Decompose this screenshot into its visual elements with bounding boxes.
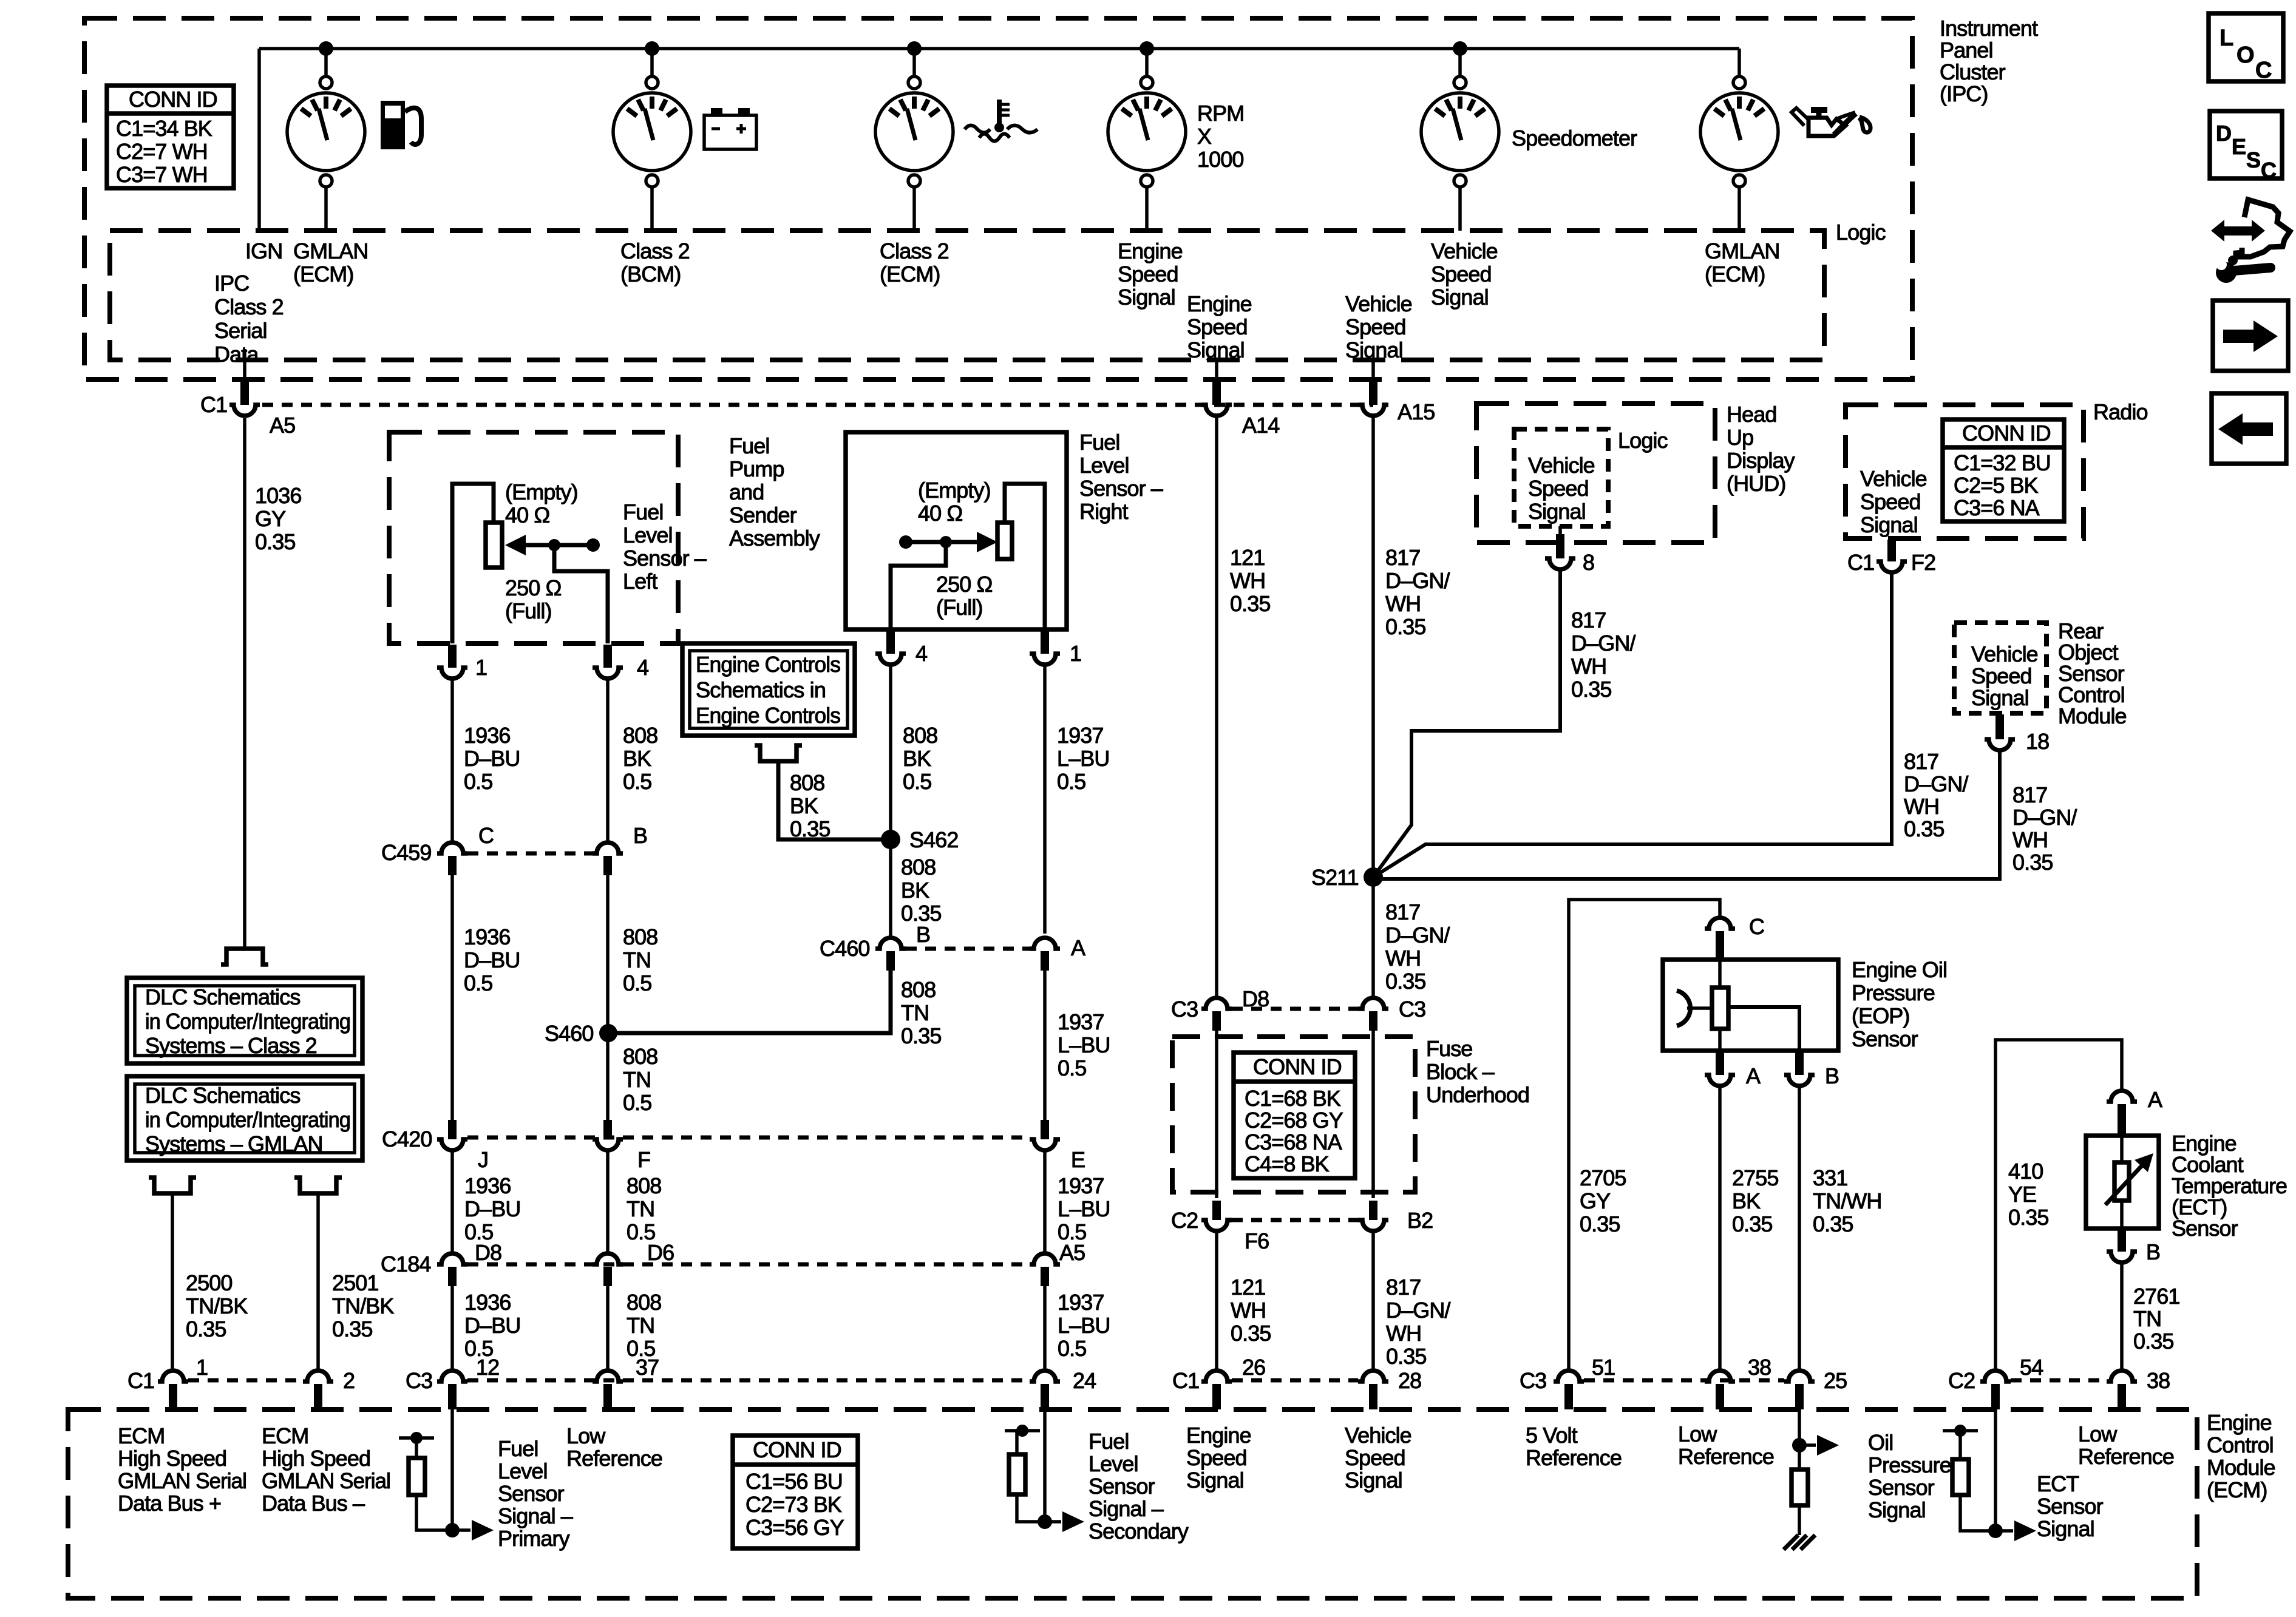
wire S460 to C460 branch bbox=[608, 970, 891, 1033]
wire 817 from rear module to S211 bbox=[1373, 750, 2000, 879]
connector ECM pin 54: pin bbox=[1991, 1384, 2000, 1409]
connector ECM pin 1: pin bbox=[169, 1384, 177, 1409]
arrow: Fuel Level Sensor Signal Primary bbox=[452, 1528, 470, 1532]
connector ECM pin 38 C3: pin bbox=[1716, 1384, 1724, 1409]
connector EOP pin A bbox=[1716, 1052, 1724, 1075]
svg-text:S: S bbox=[2246, 147, 2260, 172]
junction pin54 signal bbox=[1988, 1524, 2003, 1538]
svg-text:Engine ControlsSchematics inEn: Engine ControlsSchematics inEngine Contr… bbox=[696, 652, 840, 728]
ECM pin 25 internal: wire/junction/arrow/resistor/ground bbox=[1792, 1409, 1839, 1535]
svg-text:A5: A5 bbox=[270, 413, 295, 438]
fuel level sensor left: wiper to pin 4 bbox=[554, 545, 608, 643]
connector ECM pin 26: dome bbox=[1201, 1371, 1232, 1381]
ECT internals: wire + thermistor bbox=[2120, 1136, 2124, 1162]
wire: tachometer RPM gauge to logic box bbox=[1145, 187, 1149, 231]
box: Engine Controls Schematics bbox=[682, 643, 855, 736]
svg-text:S460: S460 bbox=[545, 1021, 593, 1046]
svg-text:A14: A14 bbox=[1242, 413, 1279, 438]
svg-text:E: E bbox=[2232, 134, 2246, 159]
svg-text:8: 8 bbox=[1583, 550, 1594, 575]
ECT internals: thermistor arrow bbox=[2105, 1153, 2153, 1205]
wire 1936 D-BU 0.5 (seg 2) bbox=[450, 875, 454, 1120]
svg-text:Logic: Logic bbox=[1836, 220, 1886, 245]
svg-text:B: B bbox=[633, 823, 647, 848]
svg-text:CONN ID: CONN ID bbox=[129, 87, 217, 112]
connector C420 pin E: cup bbox=[1030, 1139, 1060, 1150]
connector ECM pin 54: dome bbox=[1980, 1371, 2011, 1381]
connector ECM pin 12: pin bbox=[448, 1384, 457, 1409]
wire: IGN vertical from bus into logic box bbox=[257, 49, 261, 231]
connector ECM pin 51: pin bbox=[1564, 1384, 1573, 1409]
connector ECM pin 37: dome bbox=[593, 1371, 623, 1381]
wire 817 D-GN/WH (to ECM 28) bbox=[1371, 1231, 1375, 1369]
box: DLC Schematics GMLAN bbox=[127, 1076, 362, 1161]
box: Fuel Pump and Sender Assembly (dashed) bbox=[389, 432, 678, 643]
connector C459 pin C: pin bbox=[448, 856, 457, 875]
wire ECM pin 54 internal bbox=[1994, 1409, 1997, 1531]
wire: ignition/GMLAN bus across top bbox=[259, 47, 1739, 50]
EOP internals: resistor to pin A bbox=[1718, 1029, 1722, 1051]
svg-text:L: L bbox=[2220, 25, 2233, 51]
svg-text:EngineSpeedSignal: EngineSpeedSignal bbox=[1118, 239, 1183, 310]
dotted ECM C3 row (51-38-25) bbox=[1584, 1378, 1784, 1383]
svg-text:B: B bbox=[1825, 1063, 1839, 1088]
svg-text:C184: C184 bbox=[381, 1252, 430, 1276]
icon: harness routing (arrows + wrench) bbox=[2211, 200, 2290, 283]
svg-text:C: C bbox=[2255, 58, 2272, 83]
svg-text:C: C bbox=[1749, 914, 1764, 939]
ECM CONN ID table bbox=[733, 1436, 858, 1548]
svg-text:B: B bbox=[2146, 1239, 2160, 1264]
gauge oil pressure: meter symbol bbox=[1700, 76, 1778, 187]
connector C459 pin B: dome bbox=[593, 842, 623, 853]
svg-text:C3: C3 bbox=[1171, 997, 1198, 1022]
fuse block CONN ID table bbox=[1234, 1053, 1355, 1178]
icon: fuel pump (gas station) bbox=[381, 101, 421, 149]
svg-text:1: 1 bbox=[196, 1355, 208, 1380]
icon: battery bbox=[704, 108, 756, 149]
wire ECM pin 24 internal bbox=[1043, 1409, 1047, 1522]
connector radio C1/F2 bbox=[1887, 540, 1896, 561]
svg-text:VehicleSpeedSignal: VehicleSpeedSignal bbox=[1345, 291, 1412, 362]
ground symbol (pin 25) bbox=[1784, 1535, 1815, 1550]
svg-text:25: 25 bbox=[1824, 1368, 1847, 1393]
wire: serial data stub bbox=[243, 349, 246, 360]
gauge fuel level: meter symbol bbox=[287, 76, 365, 187]
svg-text:A15: A15 bbox=[1398, 399, 1435, 424]
dotted line D8 row bbox=[1232, 1007, 1358, 1011]
connector C1/A15: pin bbox=[1369, 381, 1377, 405]
connector ECM pin 12: dome bbox=[437, 1371, 467, 1381]
radio CONN ID table bbox=[1943, 419, 2064, 521]
splice S460 bbox=[599, 1024, 617, 1042]
box: DLC Schematics Class 2 bbox=[127, 978, 362, 1063]
EOP internals: resistor bbox=[1712, 988, 1728, 1029]
connector C420 pin J: cup bbox=[437, 1139, 467, 1150]
connector C184 pin D6: pin bbox=[603, 1267, 612, 1286]
svg-text:C: C bbox=[478, 823, 494, 848]
junction on bus x=1506 bbox=[907, 41, 922, 56]
connector ECM pin 38 C3: dome bbox=[1705, 1371, 1735, 1381]
svg-text:F6: F6 bbox=[1245, 1229, 1269, 1253]
connector ECT pin A bbox=[2107, 1091, 2137, 1102]
connector fuse C3 right: pin bbox=[1369, 1011, 1377, 1031]
svg-text:121WH0.35: 121WH0.35 bbox=[1231, 1275, 1271, 1346]
icon box: arrow right bbox=[2213, 300, 2288, 371]
svg-text:C1: C1 bbox=[200, 392, 227, 417]
connector C420 pin F: cup bbox=[593, 1139, 623, 1150]
svg-text:2: 2 bbox=[343, 1368, 355, 1393]
ECM pulldown for pin 54 bbox=[1943, 1425, 1995, 1531]
wire 808 BK 0.5 (seg 1) bbox=[606, 679, 610, 842]
svg-text:C460: C460 bbox=[820, 936, 869, 961]
svg-text:1: 1 bbox=[1070, 641, 1081, 666]
box: Engine Oil Pressure sensor bbox=[1663, 960, 1838, 1051]
junction on bus x=2405 bbox=[1453, 41, 1467, 56]
fuel level sensor right: resistor element bbox=[997, 523, 1012, 559]
IPC internal Logic dashed box bbox=[110, 231, 1824, 360]
connector fuse C2/F6: cup bbox=[1201, 1220, 1232, 1231]
dotted line C459 bbox=[467, 852, 593, 856]
svg-text:CONN ID: CONN ID bbox=[1962, 421, 2051, 446]
wire 2755 BK 0.35 bbox=[1718, 1086, 1722, 1369]
svg-text:D8: D8 bbox=[475, 1240, 501, 1265]
wire ECM pin 12 internal bbox=[450, 1409, 454, 1530]
svg-text:A: A bbox=[1071, 935, 1085, 960]
svg-text:Class 2(BCM): Class 2(BCM) bbox=[620, 239, 690, 286]
connector ECM pin 28: dome bbox=[1358, 1371, 1388, 1381]
wire 2501 TN/BK 0.35 bbox=[316, 1193, 320, 1369]
wire 1936 D-BU 0.5 (seg 3) bbox=[450, 1150, 454, 1255]
box: Engine Control Module (dashed) bbox=[68, 1409, 2197, 1598]
connector fuse C2/F6: pin bbox=[1212, 1201, 1221, 1220]
gauge tachometer RPM: meter symbol bbox=[1108, 76, 1186, 187]
connector C1/A5: cup bbox=[229, 405, 260, 416]
wire 817 D-GN/WH (A15 through S211 to C3) bbox=[1371, 416, 1375, 998]
IPC CONN ID table bbox=[107, 86, 234, 188]
arrow: Fuel Level Sensor Signal Secondary bbox=[1045, 1520, 1061, 1524]
connector ECT pin B bbox=[2118, 1230, 2126, 1252]
connector ECM pin 28: pin bbox=[1369, 1384, 1377, 1409]
svg-text:18: 18 bbox=[2026, 729, 2049, 754]
wire 121 WH 0.35 (to ECM 26) bbox=[1215, 1231, 1218, 1369]
fuel level sensor left: wiper arrow bbox=[505, 535, 600, 555]
svg-text:12: 12 bbox=[476, 1355, 499, 1380]
connector ECM pin 38 C2: dome bbox=[2107, 1371, 2137, 1381]
splice S462 bbox=[881, 830, 900, 849]
svg-text:VehicleSpeedSignal: VehicleSpeedSignal bbox=[1528, 453, 1595, 524]
wire: bus to speedometer gauge bbox=[1458, 49, 1462, 76]
wire 2705 GY 0.35 (5V ref to EOP C) bbox=[1569, 900, 1720, 1369]
svg-text:37: 37 bbox=[636, 1355, 659, 1380]
connector C184 pin D8: dome bbox=[437, 1253, 467, 1264]
wire 121 WH 0.35 (A14 to D8) bbox=[1215, 416, 1218, 998]
svg-text:VehicleSpeedSignal: VehicleSpeedSignal bbox=[1431, 239, 1498, 310]
svg-text:CONN ID: CONN ID bbox=[1253, 1054, 1342, 1079]
arrow: ECT Sensor Signal bbox=[1995, 1529, 2013, 1533]
wire 808 BK 0.35 from Engine Controls bbox=[778, 761, 881, 839]
svg-text:C459: C459 bbox=[381, 840, 431, 865]
connector C420 pin J: pin bbox=[448, 1120, 457, 1139]
dotted line C420 bbox=[467, 1136, 1030, 1140]
connector pin 4 (fuel pump) bbox=[603, 645, 612, 668]
icon: coolant temperature (thermometer over waves) bbox=[965, 100, 1038, 141]
Instrument Panel Cluster (IPC) outer dashed box bbox=[84, 18, 1912, 379]
connector C1/A5: pin bbox=[240, 381, 249, 405]
connector C460 pin B: pin bbox=[886, 951, 895, 971]
receptacle into DLC Class-2 box bbox=[221, 949, 268, 964]
svg-text:A: A bbox=[2148, 1087, 2162, 1112]
wire: fuel level gauge to logic box bbox=[324, 187, 328, 231]
junction on bus x=1889 bbox=[1140, 41, 1154, 56]
dotted connector line IPC C1 row bbox=[262, 403, 1373, 407]
wire 808 TN 0.5 (seg 4) bbox=[606, 1150, 610, 1255]
connector fuse D8: dome bbox=[1201, 998, 1232, 1009]
connector C459 pin C: dome bbox=[437, 842, 467, 853]
svg-text:C1: C1 bbox=[1847, 550, 1874, 575]
connector EOP pin B bbox=[1795, 1052, 1804, 1075]
gauge speedometer: meter symbol bbox=[1421, 76, 1499, 187]
connector ECM pin 2: dome bbox=[303, 1371, 333, 1381]
fuel level sensor left: resistor element bbox=[486, 523, 502, 568]
svg-text:VehicleSpeedSignal: VehicleSpeedSignal bbox=[1860, 466, 1927, 537]
svg-text:Class 2(ECM): Class 2(ECM) bbox=[880, 239, 949, 286]
connector C184 pin D6: dome bbox=[593, 1253, 623, 1264]
junction pin12 signal bbox=[445, 1523, 460, 1537]
wire: bus to voltage/battery gauge bbox=[650, 49, 654, 76]
receptacle from Engine Controls box bbox=[755, 745, 802, 761]
wire 1036 GY 0.35 bbox=[243, 418, 246, 949]
box: Rear Object VSS (small dashed) bbox=[1954, 623, 2046, 713]
dotted ECM C1 row (1-2) bbox=[188, 1378, 303, 1383]
EOP internals: wiper line bbox=[1687, 1006, 1712, 1010]
svg-text:D8: D8 bbox=[1242, 986, 1269, 1011]
box: Fuse Block - Underhood (dashed) bbox=[1172, 1037, 1415, 1192]
connector C184 pin A5: pin bbox=[1041, 1267, 1049, 1286]
svg-text:CONN ID: CONN ID bbox=[753, 1437, 841, 1462]
fuel level sensor right: rheostat wire bbox=[1005, 484, 1045, 629]
wire 331 TN/WH 0.35 bbox=[1798, 1086, 1801, 1369]
svg-text:F: F bbox=[637, 1147, 650, 1172]
wire: coolant temp gauge to logic box bbox=[912, 187, 916, 231]
svg-text:VehicleSpeedSignal: VehicleSpeedSignal bbox=[1345, 1423, 1411, 1493]
box: Engine Coolant Temperature sensor bbox=[2086, 1136, 2159, 1229]
svg-text:Radio: Radio bbox=[2093, 399, 2148, 424]
junction on bus x=537 bbox=[319, 41, 333, 56]
junction on bus x=1074 bbox=[645, 41, 659, 56]
svg-text:1: 1 bbox=[475, 655, 487, 680]
connector pin 1 (fuel pump) bbox=[448, 645, 457, 668]
wire 808 BK 0.5 (right, seg1) bbox=[889, 665, 892, 832]
connector ECM pin 1: dome bbox=[158, 1371, 188, 1381]
junction pin24 signal bbox=[1038, 1514, 1052, 1529]
fuel level sensor left: rheostat wire bbox=[452, 484, 494, 643]
box: Radio (dashed) bbox=[1846, 405, 2084, 538]
connector C1/A15: cup bbox=[1358, 405, 1388, 416]
receptacle from DLC GMLAN box (right) bbox=[294, 1178, 342, 1193]
wire 808 TN 0.35 below C460 bbox=[889, 971, 892, 1033]
connector rear pin 18 bbox=[1995, 714, 2004, 739]
wire 1937 L-BU 0.5 (seg2) bbox=[1043, 971, 1047, 1120]
svg-text:C1: C1 bbox=[1172, 1368, 1199, 1393]
wire: bus to fuel level gauge bbox=[324, 49, 328, 76]
svg-text:C1=34 BKC2=7 WHC3=7 WH: C1=34 BKC2=7 WHC3=7 WH bbox=[116, 116, 212, 187]
svg-text:VehicleSpeedSignal: VehicleSpeedSignal bbox=[1971, 642, 2038, 710]
EOP internals: wire C to resistor bbox=[1718, 960, 1722, 988]
svg-text:4: 4 bbox=[915, 641, 927, 666]
splice S211 bbox=[1364, 867, 1383, 887]
svg-text:E: E bbox=[1071, 1147, 1085, 1172]
svg-text:28: 28 bbox=[1398, 1368, 1421, 1393]
icon box: arrow left bbox=[2212, 393, 2286, 464]
wire 1937 L-BU 0.5 (seg3) bbox=[1043, 1150, 1047, 1255]
connector pin 1 (right sensor) bbox=[1041, 631, 1049, 654]
wire 1937 L-BU 0.5 (seg1) bbox=[1043, 665, 1047, 934]
connector ECM pin 25: pin bbox=[1795, 1384, 1804, 1409]
svg-text:IGN: IGN bbox=[245, 239, 282, 263]
wire: speedometer gauge to logic box bbox=[1458, 187, 1462, 231]
connector pin 4 (right sensor) bbox=[886, 631, 895, 654]
connector ECM pin 2: pin bbox=[314, 1384, 322, 1409]
wire 1936 D-BU 0.5 (seg 1) bbox=[450, 679, 454, 842]
wire 2761 TN 0.35 bbox=[2120, 1263, 2124, 1369]
svg-text:C420: C420 bbox=[382, 1127, 432, 1151]
svg-text:O: O bbox=[2237, 42, 2254, 68]
wire 817 from radio to S211 bbox=[1373, 572, 1892, 877]
svg-text:A5: A5 bbox=[1059, 1240, 1085, 1265]
connector ECM pin 24: dome bbox=[1030, 1371, 1060, 1381]
connector fuse B2: pin bbox=[1369, 1201, 1377, 1220]
icon box: DESC bbox=[2210, 111, 2282, 183]
ECM pullup for pin 24 bbox=[1005, 1425, 1044, 1522]
fuel level sensor right: wiper to pin 4 bbox=[891, 542, 946, 629]
svg-text:Logic: Logic bbox=[1618, 428, 1668, 453]
svg-text:S462: S462 bbox=[909, 827, 958, 852]
wire 808 TN 0.5 (seg 3) bbox=[606, 1033, 610, 1120]
connector C184 pin A5: dome bbox=[1030, 1253, 1060, 1264]
EOP internals: tap to pin B bbox=[1728, 1007, 1799, 1051]
svg-text:C: C bbox=[2261, 158, 2277, 183]
connector ECM pin 26: pin bbox=[1212, 1384, 1221, 1409]
svg-text:C3: C3 bbox=[1399, 997, 1425, 1022]
wire 817 through fuse block bbox=[1371, 1031, 1375, 1198]
wire: bus to coolant temp gauge bbox=[912, 49, 916, 76]
svg-text:Speedometer: Speedometer bbox=[1512, 126, 1637, 151]
wire 410 YE 0.35 (ECM 54 to ECT A) bbox=[1995, 1040, 2122, 1369]
connector C1/A5: wire through IPC box bbox=[243, 360, 246, 381]
wire 808 TN 0.5 (seg 5) bbox=[606, 1286, 610, 1369]
connector ECM pin 25: dome bbox=[1784, 1371, 1815, 1381]
wire: bus to tachometer RPM gauge bbox=[1145, 49, 1149, 76]
wire 808 BK 0.35 S462 to C460 bbox=[889, 839, 892, 938]
connector ECM pin 38 C2: pin bbox=[2118, 1384, 2126, 1409]
svg-text:C1=56 BUC2=73 BKC3=56 GY: C1=56 BUC2=73 BKC3=56 GY bbox=[746, 1469, 844, 1540]
svg-text:B2: B2 bbox=[1407, 1208, 1433, 1233]
svg-text:38: 38 bbox=[1748, 1355, 1771, 1380]
gauge coolant temp: meter symbol bbox=[875, 76, 953, 187]
svg-text:C1: C1 bbox=[127, 1368, 154, 1393]
dotted line F6/B2 row bbox=[1232, 1218, 1358, 1222]
connector fuse D8: pin bbox=[1212, 1011, 1221, 1031]
dotted ECM C1 row (26-28) bbox=[1232, 1378, 1358, 1383]
svg-text:C3: C3 bbox=[406, 1368, 432, 1393]
connector C460 pin B: dome bbox=[875, 938, 906, 949]
svg-text:121WH0.35: 121WH0.35 bbox=[1230, 545, 1270, 616]
connector ECM pin 37: pin bbox=[603, 1384, 612, 1409]
svg-text:C2: C2 bbox=[1948, 1368, 1975, 1393]
wire 1937 L-BU 0.5 (seg4) bbox=[1043, 1286, 1047, 1369]
wire 817 from HUD to S211 bbox=[1373, 569, 1560, 877]
svg-text:B: B bbox=[916, 922, 930, 947]
connector ECM pin 51: dome bbox=[1554, 1371, 1584, 1381]
connector C460 pin A: pin bbox=[1041, 951, 1049, 971]
box: HUD Vehicle Speed Signal logic (small dashed) bbox=[1514, 429, 1608, 526]
svg-text:51: 51 bbox=[1592, 1355, 1615, 1380]
connector EOP pin C bbox=[1705, 918, 1735, 929]
receptacle from DLC GMLAN box (left) bbox=[149, 1178, 196, 1193]
svg-text:24: 24 bbox=[1073, 1368, 1096, 1393]
svg-text:C1=32 BUC2=5 BKC3=6 NA: C1=32 BUC2=5 BKC3=6 NA bbox=[1954, 450, 2051, 520]
wire 1936 D-BU 0.5 (seg 4) bbox=[450, 1286, 454, 1369]
svg-text:38: 38 bbox=[2147, 1368, 2170, 1393]
icon: oil can bbox=[1792, 108, 1870, 136]
gauge voltage/battery: meter symbol bbox=[613, 76, 691, 187]
svg-text:26: 26 bbox=[1242, 1355, 1265, 1380]
connector C420 pin F: pin bbox=[603, 1120, 612, 1139]
connector HUD pin 8 bbox=[1558, 526, 1562, 534]
svg-text:EngineSpeedSignal: EngineSpeedSignal bbox=[1186, 1423, 1251, 1493]
svg-text:D6: D6 bbox=[647, 1240, 674, 1265]
connector fuse C3 right: dome bbox=[1358, 998, 1388, 1009]
icon box: LOC bbox=[2209, 13, 2283, 83]
svg-text:54: 54 bbox=[2020, 1355, 2043, 1380]
svg-text:S211: S211 bbox=[1311, 865, 1359, 890]
dotted ECM C2 row (54-38) bbox=[2011, 1378, 2107, 1383]
connector C460 pin A: dome bbox=[1030, 938, 1060, 949]
svg-text:C2: C2 bbox=[1171, 1208, 1198, 1233]
svg-text:EngineControlModule(ECM): EngineControlModule(ECM) bbox=[2207, 1410, 2275, 1502]
ECM pullup for pin 12 bbox=[399, 1432, 452, 1530]
wire: oil pressure gauge to logic box bbox=[1737, 187, 1741, 231]
svg-text:4: 4 bbox=[637, 655, 648, 680]
svg-text:J: J bbox=[478, 1147, 488, 1172]
svg-text:F2: F2 bbox=[1911, 550, 1935, 575]
svg-text:D: D bbox=[2216, 121, 2231, 146]
EOP internals: pressure port arc bbox=[1677, 991, 1690, 1026]
connector C459 pin B: pin bbox=[603, 856, 612, 875]
connector C420 pin E: pin bbox=[1041, 1120, 1049, 1139]
dotted line C184 bbox=[467, 1263, 1030, 1267]
connector C1/A14: wire through IPC box bbox=[1215, 360, 1218, 381]
box: Fuel Level Sensor - Right bbox=[846, 432, 1067, 629]
svg-text:C3: C3 bbox=[1520, 1368, 1546, 1393]
fuel level sensor right: wiper arrow bbox=[899, 532, 997, 552]
connector C1/A14: pin bbox=[1212, 381, 1221, 405]
connector C1/A15: wire through IPC box bbox=[1371, 360, 1375, 381]
connector C1/A14: cup bbox=[1201, 405, 1232, 416]
connector C184 pin D8: pin bbox=[448, 1267, 457, 1286]
connector fuse B2: cup bbox=[1358, 1220, 1388, 1231]
wire 2500 TN/BK 0.35 bbox=[171, 1193, 174, 1369]
svg-text:C1=68 BKC2=68 GYC3=68 NAC4=8 B: C1=68 BKC2=68 GYC3=68 NAC4=8 BK bbox=[1245, 1086, 1343, 1176]
wire 121 through fuse block bbox=[1215, 1031, 1218, 1198]
box: Head Up Display outer (dashed) bbox=[1476, 404, 1715, 543]
connector ECM pin 24: pin bbox=[1041, 1384, 1049, 1409]
wire 808 TN 0.5 (seg 2) bbox=[606, 875, 610, 1033]
svg-text:EngineSpeedSignal: EngineSpeedSignal bbox=[1187, 291, 1252, 362]
wire: voltage/battery gauge to logic box bbox=[650, 187, 654, 231]
dotted ECM C3 row (12-37-24) bbox=[467, 1378, 1030, 1383]
